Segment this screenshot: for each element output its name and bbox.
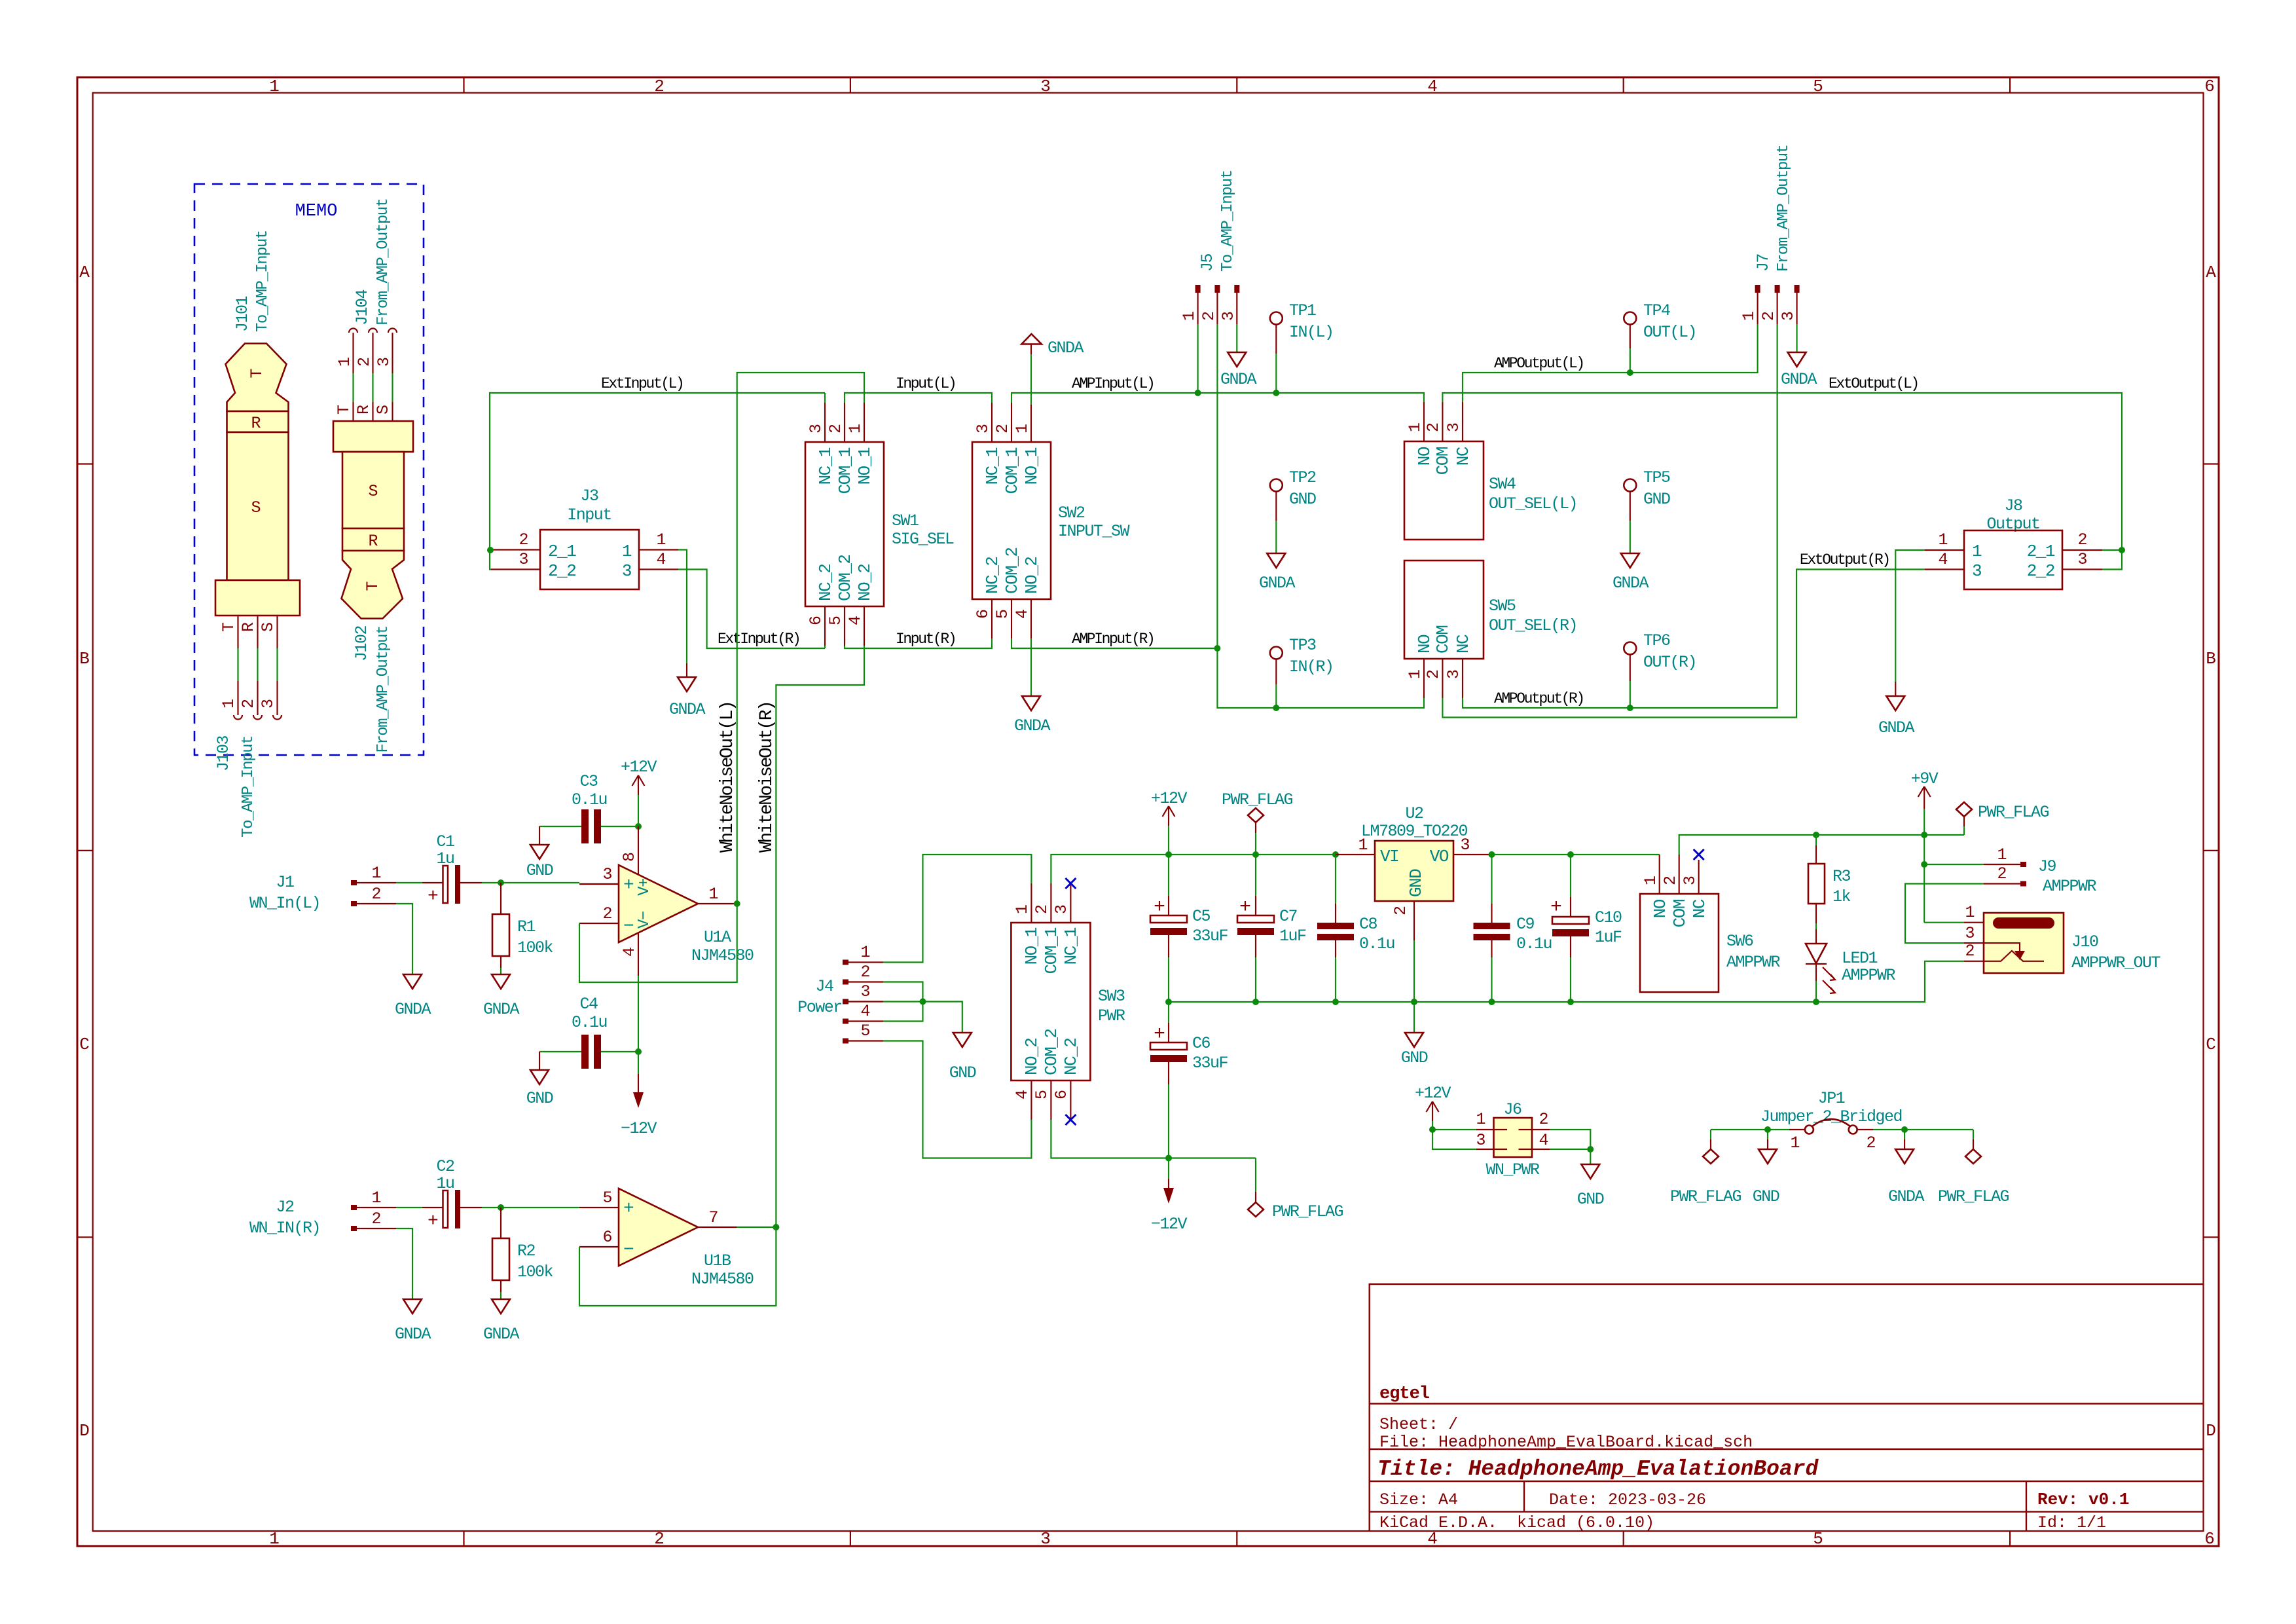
capacitor C7 1uF (polarized) [1237, 855, 1306, 1002]
wire +12V to J6 pins 1,3 [1432, 1130, 1476, 1149]
capacitor C4 0.1u [539, 995, 638, 1069]
svg-text:Input: Input [567, 506, 611, 525]
svg-text:GND: GND [1401, 1048, 1428, 1067]
no-connect X at SW3 pin6 [1065, 1115, 1076, 1125]
svg-text:To_AMP_Input: To_AMP_Input [240, 736, 257, 838]
svg-text:C: C [2206, 1035, 2216, 1054]
svg-text:+9V: +9V [1911, 769, 1939, 788]
svg-text:2: 2 [993, 424, 1012, 434]
svg-text:NO_2: NO_2 [1022, 557, 1042, 594]
svg-text:AMPOutput(L): AMPOutput(L) [1494, 355, 1584, 372]
junction J5 pin1 [1195, 390, 1201, 396]
junction C10 bottom [1567, 999, 1574, 1005]
svg-text:T: T [219, 622, 238, 632]
svg-text:B: B [2206, 649, 2216, 669]
wire J9 pin2 to J10 pin3 [1905, 884, 1984, 944]
svg-text:1: 1 [335, 357, 354, 367]
svg-text:−: − [623, 1240, 634, 1261]
svg-text:NC_2: NC_2 [1061, 1039, 1081, 1075]
svg-text:1: 1 [1180, 311, 1199, 321]
junction J4 pin3 [920, 999, 926, 1005]
capacitor C3 0.1u [539, 772, 638, 843]
svg-text:7: 7 [708, 1208, 718, 1227]
svg-text:3: 3 [2077, 550, 2087, 569]
junction LED1/GND rail [1813, 999, 1819, 1005]
svg-text:J2: J2 [276, 1198, 294, 1217]
svg-text:1: 1 [860, 943, 870, 962]
junction C10 top [1567, 851, 1574, 858]
svg-text:3: 3 [1040, 1529, 1051, 1549]
svg-text:GND: GND [1753, 1187, 1779, 1206]
power flag PWR_FLAG near +9V [1956, 802, 2049, 835]
test point TP2 GND [1259, 468, 1316, 593]
svg-text:SW1: SW1 [892, 511, 919, 530]
svg-text:2: 2 [1965, 942, 1975, 961]
no-connect X at SW6 pin3 [1694, 849, 1704, 860]
wire bottom -12V rail [1051, 1120, 1256, 1158]
svg-text:AMPInput(L): AMPInput(L) [1072, 375, 1154, 392]
svg-text:2: 2 [371, 1209, 381, 1228]
svg-text:AMPInput(R): AMPInput(R) [1072, 631, 1154, 648]
wire J5 pin3 to GNDA [1236, 324, 1237, 352]
svg-text:6: 6 [2204, 1529, 2215, 1549]
svg-text:2: 2 [654, 1529, 665, 1549]
svg-text:1: 1 [371, 864, 381, 883]
wire C1 to junction [482, 882, 579, 883]
svg-text:GND: GND [1289, 490, 1316, 509]
junction J6 pin4 [1587, 1146, 1594, 1153]
connector J3 Input [491, 487, 678, 589]
svg-text:4: 4 [860, 1002, 870, 1021]
svg-text:2_1: 2_1 [2027, 542, 2055, 561]
connector J4 Power [797, 943, 883, 1044]
svg-text:5: 5 [1813, 77, 1823, 96]
svg-text:4: 4 [1539, 1131, 1548, 1150]
svg-text:1: 1 [1013, 904, 1032, 914]
GNDA symbol below J5 pin3 [1220, 352, 1257, 389]
switch SW4 OUT_SEL(L) [1404, 402, 1577, 540]
junction TP4 [1627, 369, 1633, 376]
svg-text:4: 4 [1013, 1090, 1032, 1099]
svg-text:T: T [363, 581, 382, 591]
svg-text:1: 1 [622, 542, 632, 561]
wire right of JP1 [1873, 1129, 1973, 1130]
GND symbol left of C3 [526, 826, 553, 880]
svg-text:6: 6 [602, 1228, 612, 1247]
junction C5/GND rail [1165, 999, 1172, 1005]
svg-text:ExtOutput(L): ExtOutput(L) [1829, 375, 1918, 392]
svg-text:1: 1 [1997, 845, 2007, 864]
resistor R1 100k [492, 883, 553, 968]
junction GNDA tap right of JP1 [1901, 1126, 1908, 1133]
svg-text:J6: J6 [1503, 1100, 1522, 1119]
svg-text:+: + [1154, 1024, 1165, 1046]
svg-text:1uF: 1uF [1595, 928, 1622, 947]
svg-text:J101: J101 [233, 296, 252, 332]
svg-text:A: A [2206, 263, 2216, 282]
svg-text:5: 5 [1032, 1090, 1051, 1099]
wire AMPPWR: SW6 COM to J9/J10 [1679, 835, 1964, 855]
svg-text:GNDA: GNDA [483, 1325, 520, 1344]
connector J104 From_AMP_Output (pin header) [335, 198, 397, 373]
svg-text:PWR_FLAG: PWR_FLAG [1670, 1187, 1741, 1206]
svg-text:2: 2 [602, 904, 612, 923]
svg-text:WhiteNoiseOut(R): WhiteNoiseOut(R) [757, 702, 777, 853]
svg-text:J4: J4 [815, 977, 833, 996]
svg-text:V−: V− [636, 911, 653, 929]
power +12V on rail [1151, 789, 1188, 855]
svg-text:R: R [239, 622, 258, 632]
svg-text:NO: NO [1415, 635, 1434, 654]
J101 S section [227, 432, 289, 580]
svg-text:NC_1: NC_1 [983, 447, 1002, 485]
wire U2 GND to GND symbol [1413, 1002, 1415, 1033]
svg-text:0.1u: 0.1u [1359, 934, 1394, 953]
svg-text:D: D [2206, 1421, 2216, 1441]
svg-text:1uF: 1uF [1279, 927, 1306, 946]
svg-text:WN_PWR: WN_PWR [1485, 1160, 1540, 1179]
svg-text:TP4: TP4 [1643, 301, 1670, 320]
junction C3/+12V [635, 823, 642, 830]
svg-text:U1B: U1B [704, 1251, 731, 1270]
svg-text:KiCad E.D.A. kicad (6.0.10): KiCad E.D.A. kicad (6.0.10) [1379, 1513, 1654, 1532]
wire ExtOutput(L): SW4 COM to J8 [1442, 393, 2122, 570]
wire J6 pins 2,4 to GND [1550, 1130, 1591, 1164]
svg-text:J7: J7 [1754, 253, 1773, 272]
junction U1A output [734, 900, 740, 907]
svg-text:1k: 1k [1832, 887, 1851, 906]
svg-text:NO: NO [1415, 447, 1434, 466]
connector J103 To_AMP_Input (pin header) [214, 681, 282, 838]
svg-text:J104: J104 [353, 289, 372, 325]
svg-text:GNDA: GNDA [1781, 370, 1817, 389]
svg-text:2: 2 [1424, 422, 1443, 432]
svg-text:C: C [79, 1035, 90, 1054]
svg-text:GNDA: GNDA [395, 1325, 431, 1344]
svg-text:From_AMP_Output: From_AMP_Output [374, 626, 392, 753]
wire J2 pin2 to GNDA [396, 1228, 412, 1299]
GNDA symbol below J2 [395, 1299, 431, 1344]
svg-text:C10: C10 [1595, 908, 1622, 927]
junction C8/GND rail [1332, 999, 1339, 1005]
wire left of JP1 [1711, 1129, 1789, 1130]
svg-text:From_AMP_Output: From_AMP_Output [1775, 145, 1793, 272]
capacitor C6 33uF (polarized) [1150, 1002, 1228, 1158]
wire R2 to GNDA [500, 1292, 501, 1299]
svg-text:OUT(R): OUT(R) [1643, 653, 1696, 672]
svg-text:+: + [428, 887, 439, 907]
svg-text:Input(L): Input(L) [896, 375, 955, 392]
svg-text:2: 2 [2077, 530, 2087, 549]
test point TP6 OUT(R) [1624, 631, 1696, 708]
svg-text:2: 2 [239, 699, 258, 709]
GNDA symbol below SW2 [1014, 696, 1051, 735]
svg-text:Input(R): Input(R) [896, 631, 955, 648]
svg-text:NJM4580: NJM4580 [691, 1270, 754, 1289]
wire Input(L): SW1 COM_1 to SW2 NC_1 [845, 393, 992, 403]
svg-text:JP1: JP1 [1818, 1089, 1845, 1108]
svg-text:COM_1: COM_1 [1042, 927, 1061, 974]
svg-text:INPUT_SW: INPUT_SW [1058, 522, 1130, 541]
svg-text:3: 3 [1476, 1131, 1485, 1150]
svg-text:2: 2 [1199, 311, 1218, 321]
svg-text:TP6: TP6 [1643, 631, 1670, 650]
svg-text:PWR_FLAG: PWR_FLAG [1222, 790, 1293, 809]
switch SW1 SIG_SEL [805, 403, 954, 646]
svg-text:1: 1 [219, 699, 238, 709]
junction J6 pin1 [1429, 1126, 1436, 1133]
junction C9 top [1489, 851, 1495, 858]
svg-text:3: 3 [1681, 876, 1700, 885]
svg-text:2: 2 [860, 963, 870, 982]
junction C8 [1332, 851, 1339, 858]
svg-text:WN_IN(R): WN_IN(R) [249, 1219, 320, 1238]
op-amp U1A NJM4580 [579, 826, 754, 976]
svg-text:PWR_FLAG: PWR_FLAG [1978, 803, 2049, 822]
svg-text:VO: VO [1430, 847, 1449, 866]
svg-text:A: A [79, 263, 90, 282]
wire J7 pin3 to GNDA [1796, 324, 1798, 352]
wire J104-J102 pin2 [372, 373, 373, 402]
svg-text:SW3: SW3 [1098, 987, 1125, 1006]
svg-text:1: 1 [1358, 836, 1368, 855]
svg-text:2_2: 2_2 [548, 561, 575, 581]
wire U1B feedback: pin6 to output [579, 1227, 776, 1306]
svg-text:1: 1 [1406, 422, 1425, 432]
svg-text:−12V: −12V [1151, 1215, 1188, 1234]
switch SW2 INPUT_SW [972, 403, 1130, 638]
MEMO note box [194, 184, 424, 755]
GND symbol below J6 [1577, 1164, 1604, 1209]
svg-text:3: 3 [860, 982, 870, 1001]
capacitor C9 0.1u [1474, 855, 1552, 1002]
capacitor C5 33uF (polarized) [1150, 855, 1228, 1002]
svg-text:egtel: egtel [1379, 1384, 1430, 1404]
svg-text:J5: J5 [1198, 253, 1217, 272]
junction C9 bottom [1489, 999, 1495, 1005]
svg-text:+: + [623, 876, 634, 896]
svg-text:3: 3 [602, 865, 612, 884]
wire J104-J102 pin1 [352, 373, 354, 402]
svg-text:GNDA: GNDA [1613, 574, 1649, 593]
svg-text:2_2: 2_2 [2027, 561, 2054, 581]
power -12V below U1A [621, 1074, 657, 1138]
svg-text:GNDA: GNDA [483, 1000, 520, 1019]
J102 R section [342, 528, 404, 551]
wire J5 pin2 continues to SW5 NO [1217, 648, 1424, 708]
svg-text:C5: C5 [1192, 907, 1211, 926]
wire J104-J102 pin3 [392, 373, 393, 402]
GNDA symbol right of JP1 [1888, 1130, 1925, 1206]
svg-text:WN_In(L): WN_In(L) [249, 894, 320, 913]
wire J3 pins 2,3 to ExtInput(L) [490, 393, 825, 570]
svg-text:−12V: −12V [621, 1119, 657, 1138]
svg-text:Rev: v0.1: Rev: v0.1 [2037, 1490, 2129, 1509]
svg-text:1: 1 [1972, 542, 1982, 561]
svg-text:SW5: SW5 [1489, 597, 1516, 616]
junction C1/R1 [498, 879, 504, 886]
svg-text:2: 2 [1424, 669, 1443, 679]
svg-text:1: 1 [1406, 669, 1425, 679]
junction GND tap left of JP1 [1764, 1126, 1771, 1133]
svg-text:Date: 2023-03-26: Date: 2023-03-26 [1549, 1490, 1706, 1509]
wire U1A pin4 to -12V [638, 976, 639, 1074]
junction +12V/C5 [1165, 851, 1172, 858]
svg-text:PWR: PWR [1098, 1006, 1125, 1025]
GNDA symbol below R1 [483, 974, 520, 1019]
GNDA symbol below R2 [483, 1299, 520, 1344]
wire SW5 COM to ExtOutput(R) [1442, 570, 1925, 718]
svg-text:TP2: TP2 [1289, 468, 1316, 487]
svg-text:100k: 100k [517, 938, 553, 957]
svg-text:SW4: SW4 [1489, 475, 1516, 494]
svg-text:+: + [428, 1211, 439, 1232]
svg-text:WhiteNoiseOut(L): WhiteNoiseOut(L) [718, 702, 738, 853]
svg-text:2: 2 [654, 77, 665, 96]
svg-text:3: 3 [1460, 836, 1470, 855]
power flag PWR_FLAG on -12V rail [1248, 1158, 1343, 1222]
junction J8 pin2 [2119, 547, 2125, 553]
svg-text:J3: J3 [580, 487, 598, 506]
svg-text:2: 2 [1661, 876, 1680, 885]
power +12V above U1A [621, 758, 657, 826]
power +9V [1911, 769, 1939, 835]
svg-text:6: 6 [974, 609, 993, 619]
svg-text:GNDA: GNDA [1259, 574, 1296, 593]
svg-text:U1A: U1A [704, 928, 731, 947]
svg-text:GNDA: GNDA [1888, 1187, 1925, 1206]
GND symbol left of JP1 [1753, 1130, 1779, 1206]
svg-text:1: 1 [269, 1529, 280, 1549]
wire +12V rail: SW3 COM_1 to U2 VI [1051, 855, 1336, 883]
wire SW1 pin3 stub [824, 393, 826, 403]
svg-text:6: 6 [2204, 77, 2215, 96]
svg-text:To_AMP_Input: To_AMP_Input [254, 231, 272, 332]
connector J101 To_AMP_Input (phone plug, tip up) [215, 231, 300, 648]
wire junction to U1A pin3 (pin) [579, 883, 619, 885]
svg-text:1: 1 [269, 77, 280, 96]
power flag PWR_FLAG right of JP1 [1938, 1130, 2009, 1206]
svg-text:J102: J102 [352, 626, 371, 662]
svg-text:8: 8 [620, 852, 639, 862]
wire WhiteNoiseOut(L): U1A out up to SW1 NO_1 [737, 373, 864, 904]
svg-text:GND: GND [949, 1063, 976, 1082]
svg-text:2: 2 [519, 530, 528, 549]
wire Input(R): SW1 COM_2 to SW2 NC_2 [845, 646, 992, 648]
svg-text:NO_2: NO_2 [855, 564, 875, 601]
svg-text:From_AMP_Output: From_AMP_Output [374, 198, 392, 325]
wire C2 to junction [482, 1207, 579, 1208]
svg-text:GND: GND [1577, 1190, 1604, 1209]
svg-text:OUT_SEL(R): OUT_SEL(R) [1489, 616, 1577, 635]
svg-text:ExtInput(R): ExtInput(R) [718, 631, 799, 648]
J102 tip section [342, 551, 405, 619]
junction J5 pin2 [1214, 645, 1220, 652]
svg-text:C1: C1 [436, 832, 454, 851]
wire WhiteNoiseOut(R): U1B out up to SW1 NO_2 [776, 646, 864, 1227]
svg-text:1: 1 [1476, 1110, 1485, 1129]
svg-text:COM_1: COM_1 [1002, 447, 1022, 494]
svg-text:3: 3 [974, 424, 993, 434]
svg-text:+12V: +12V [621, 758, 657, 777]
svg-text:B: B [79, 649, 90, 669]
svg-text:2: 2 [1866, 1134, 1876, 1153]
svg-text:C2: C2 [436, 1157, 454, 1176]
wire J1 pin2 to GNDA [396, 904, 412, 974]
svg-text:D: D [79, 1421, 90, 1441]
svg-text:To_AMP_Input: To_AMP_Input [1219, 170, 1237, 272]
svg-text:COM_2: COM_2 [835, 555, 855, 601]
svg-text:J1: J1 [276, 873, 294, 892]
svg-text:3: 3 [374, 357, 393, 367]
resistor R3 1k [1808, 835, 1851, 929]
wire U1A feedback: pin2 to output [579, 904, 737, 982]
capacitor C10 1uF (polarized) [1550, 855, 1622, 1002]
GND symbol below J4 [949, 1033, 976, 1082]
title block [1370, 1284, 2204, 1531]
GNDA symbol below J3 [669, 663, 706, 719]
wire SW2 pin6 stub [991, 638, 993, 648]
switch SW6 AMPPWR [1640, 855, 1781, 992]
svg-text:C9: C9 [1516, 915, 1535, 934]
op-amp U1B NJM4580 [579, 1189, 754, 1289]
capacitor C1 1u (polarized) [422, 832, 482, 907]
svg-text:5: 5 [1813, 1529, 1823, 1549]
J102 S section [342, 452, 404, 528]
svg-text:1: 1 [708, 885, 718, 904]
svg-text:R: R [368, 532, 378, 551]
junction U1B output [773, 1224, 779, 1230]
switch SW3 PWR [1011, 883, 1125, 1120]
svg-text:S: S [251, 498, 261, 517]
svg-text:4: 4 [656, 550, 666, 569]
connector J5 To_AMP_Input [1180, 170, 1239, 324]
svg-text:+: + [1239, 896, 1251, 919]
svg-text:AMPPWR_OUT: AMPPWR_OUT [2071, 953, 2161, 972]
svg-text:NJM4580: NJM4580 [691, 946, 754, 965]
svg-text:+: + [1550, 896, 1562, 919]
svg-text:J8: J8 [2004, 496, 2022, 515]
svg-text:2: 2 [1997, 864, 2007, 883]
wire J8 pin2 to junction [2102, 549, 2122, 551]
svg-text:0.1u: 0.1u [572, 790, 607, 809]
svg-text:GND: GND [1406, 869, 1426, 897]
power flag PWR_FLAG left of JP1 [1670, 1130, 1741, 1206]
switch SW5 OUT_SEL(R) [1404, 561, 1577, 698]
wire J101-J103 pin2 [257, 648, 258, 681]
svg-text:R2: R2 [517, 1242, 536, 1261]
connector J6 WN_PWR [1476, 1100, 1550, 1179]
J101 base section [215, 580, 300, 616]
svg-text:4: 4 [1427, 77, 1438, 96]
svg-text:AMPOutput(R): AMPOutput(R) [1494, 690, 1584, 707]
junction U2 GND [1411, 999, 1417, 1005]
wire J4 pins 2,3,4 bus [883, 982, 923, 1022]
svg-text:3: 3 [259, 699, 278, 709]
wire J3 pin4 to ExtInput(R) [678, 570, 825, 649]
svg-text:6: 6 [1052, 1090, 1071, 1099]
svg-text:4: 4 [620, 947, 639, 957]
svg-text:3: 3 [1040, 77, 1051, 96]
svg-text:NC_1: NC_1 [816, 447, 835, 485]
svg-text:J103: J103 [214, 736, 233, 772]
svg-text:R: R [354, 405, 373, 415]
wire J5 pin2 down to AMPInput(R) [1216, 324, 1218, 648]
test point TP5 GND [1613, 468, 1670, 593]
power flag PWR_FLAG on +12V rail [1222, 790, 1293, 855]
connector J1 WN_In(L) [249, 864, 396, 913]
svg-text:SW6: SW6 [1726, 932, 1753, 951]
